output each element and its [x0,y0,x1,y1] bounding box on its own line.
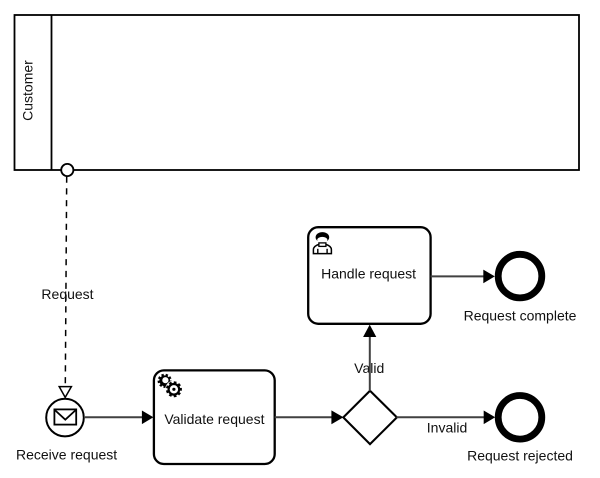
sequence flow: gateway -> rejected [397,411,496,425]
svg-text:Customer: Customer [20,60,36,121]
end event Request complete [498,254,542,298]
svg-text:Request complete: Request complete [464,307,577,323]
sequence flow: receive -> validate [85,411,153,425]
message icon (envelope) [54,409,76,424]
message flow start node (pool boundary) [61,164,73,176]
svg-text:Handle request: Handle request [321,265,416,281]
task Validate request [154,370,275,464]
svg-text:Request rejected: Request rejected [467,447,573,463]
gateway (exclusive) [343,391,397,444]
end event Request rejected [498,396,542,440]
message flow arrowhead (open) [59,387,71,398]
pool Customer [15,15,580,170]
task Handle request [308,227,430,324]
user task icon [313,232,331,254]
sequence flow: validate -> gateway [275,410,344,424]
sequence flow: handle -> complete [431,270,495,284]
sequence flow: gateway -> handle (up) [363,325,376,391]
svg-text:Invalid: Invalid [427,420,467,436]
service task icon (gears) [158,374,183,398]
start event Receive request [46,399,84,437]
svg-text:Receive request: Receive request [16,447,117,463]
svg-text:Request: Request [41,286,93,302]
message flow (dashed) [65,177,66,387]
svg-text:Validate request: Validate request [164,411,264,427]
